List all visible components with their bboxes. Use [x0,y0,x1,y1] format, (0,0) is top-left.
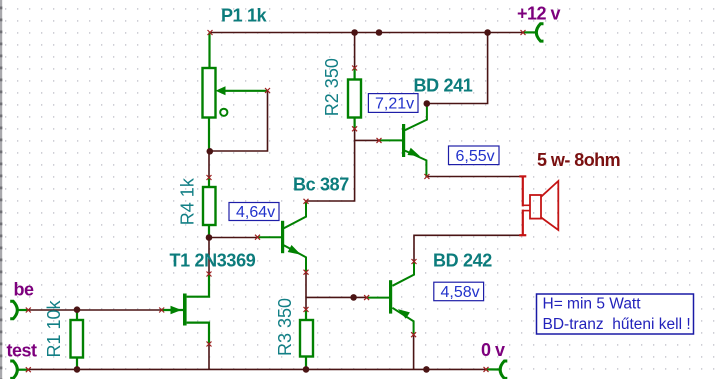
svg-text:R2 350: R2 350 [322,58,342,116]
page left border [0,0,2,379]
pin x marks [26,30,526,372]
svg-text:BD 242: BD 242 [433,250,492,270]
resistor R1 [71,310,84,369]
value box 6,55v [449,146,500,165]
resistor R4 [203,178,216,238]
potentiometer P1 [203,33,268,152]
wire be terminal to T1 base [28,309,161,311]
wire speaker bottom to BD242 collector [414,235,522,261]
wire R4 bottom to Bc387 base [209,237,258,239]
resistor R2 [348,68,361,129]
svg-text:P1 1k: P1 1k [221,6,268,26]
wire R2 bottom to Bc387 collector [306,129,355,201]
svg-text:T1 2N3369: T1 2N3369 [170,250,256,270]
svg-text:R1 10k: R1 10k [44,299,64,357]
wire top +12v rail [210,32,523,34]
wire BD242 emitter to ground rail [413,335,415,370]
P1 wiper arrowhead [216,86,226,95]
svg-text:R4 1k: R4 1k [178,177,198,225]
value box 4,64v [229,203,279,221]
svg-text:H= min 5 Watt: H= min 5 Watt [543,296,642,313]
value box 7,21v [368,94,418,113]
P1 circle marker [220,109,227,116]
svg-text:0 v: 0 v [481,340,505,360]
wire to BD241 base [355,139,379,141]
svg-text:be: be [14,280,34,300]
wire rail to R2 top [354,33,356,69]
transistor Q1 BD241 [379,105,427,177]
wire T1 emitter to ground rail [208,344,210,369]
terminal 0v [500,361,507,378]
svg-text:4,64v: 4,64v [236,204,275,221]
speaker LS1 [519,176,558,235]
wire rail down to BD241 collector node [427,33,488,104]
wire R4 bottom to T1 collector [208,238,210,275]
terminal test [10,361,17,378]
value box 4,58v [434,282,484,301]
svg-text:Bc 387: Bc 387 [293,174,349,194]
svg-text:5 w- 8ohm: 5 w- 8ohm [537,150,620,170]
svg-text:BD-tranz hűteni kell !: BD-tranz hűteni kell ! [543,316,691,333]
transistor Q2 Bc387 [258,201,307,272]
note box [537,294,694,334]
terminal +12v [536,24,543,41]
wire P1 bottom to R4 top [208,151,210,178]
wire bottom 0v rail [28,368,486,370]
wire node to BD242 base [306,296,367,298]
transistor Q3 BD242 [367,262,414,335]
wire P1 wiper to P1 bottom node [210,91,268,152]
svg-text:+12 v: +12 v [517,4,561,24]
svg-text:4,58v: 4,58v [441,284,480,301]
svg-text:BD 241: BD 241 [414,75,473,95]
resistor R3 [300,309,313,369]
terminal be [10,301,17,318]
svg-text:7,21v: 7,21v [375,96,414,113]
svg-text:6,55v: 6,55v [456,148,495,165]
svg-text:R3 350: R3 350 [275,298,295,356]
wire BD241 emitter to speaker [427,176,522,178]
svg-text:test: test [7,341,38,361]
transistor T1 [162,274,209,344]
wire Bc387 emitter to R3 top [305,272,307,309]
